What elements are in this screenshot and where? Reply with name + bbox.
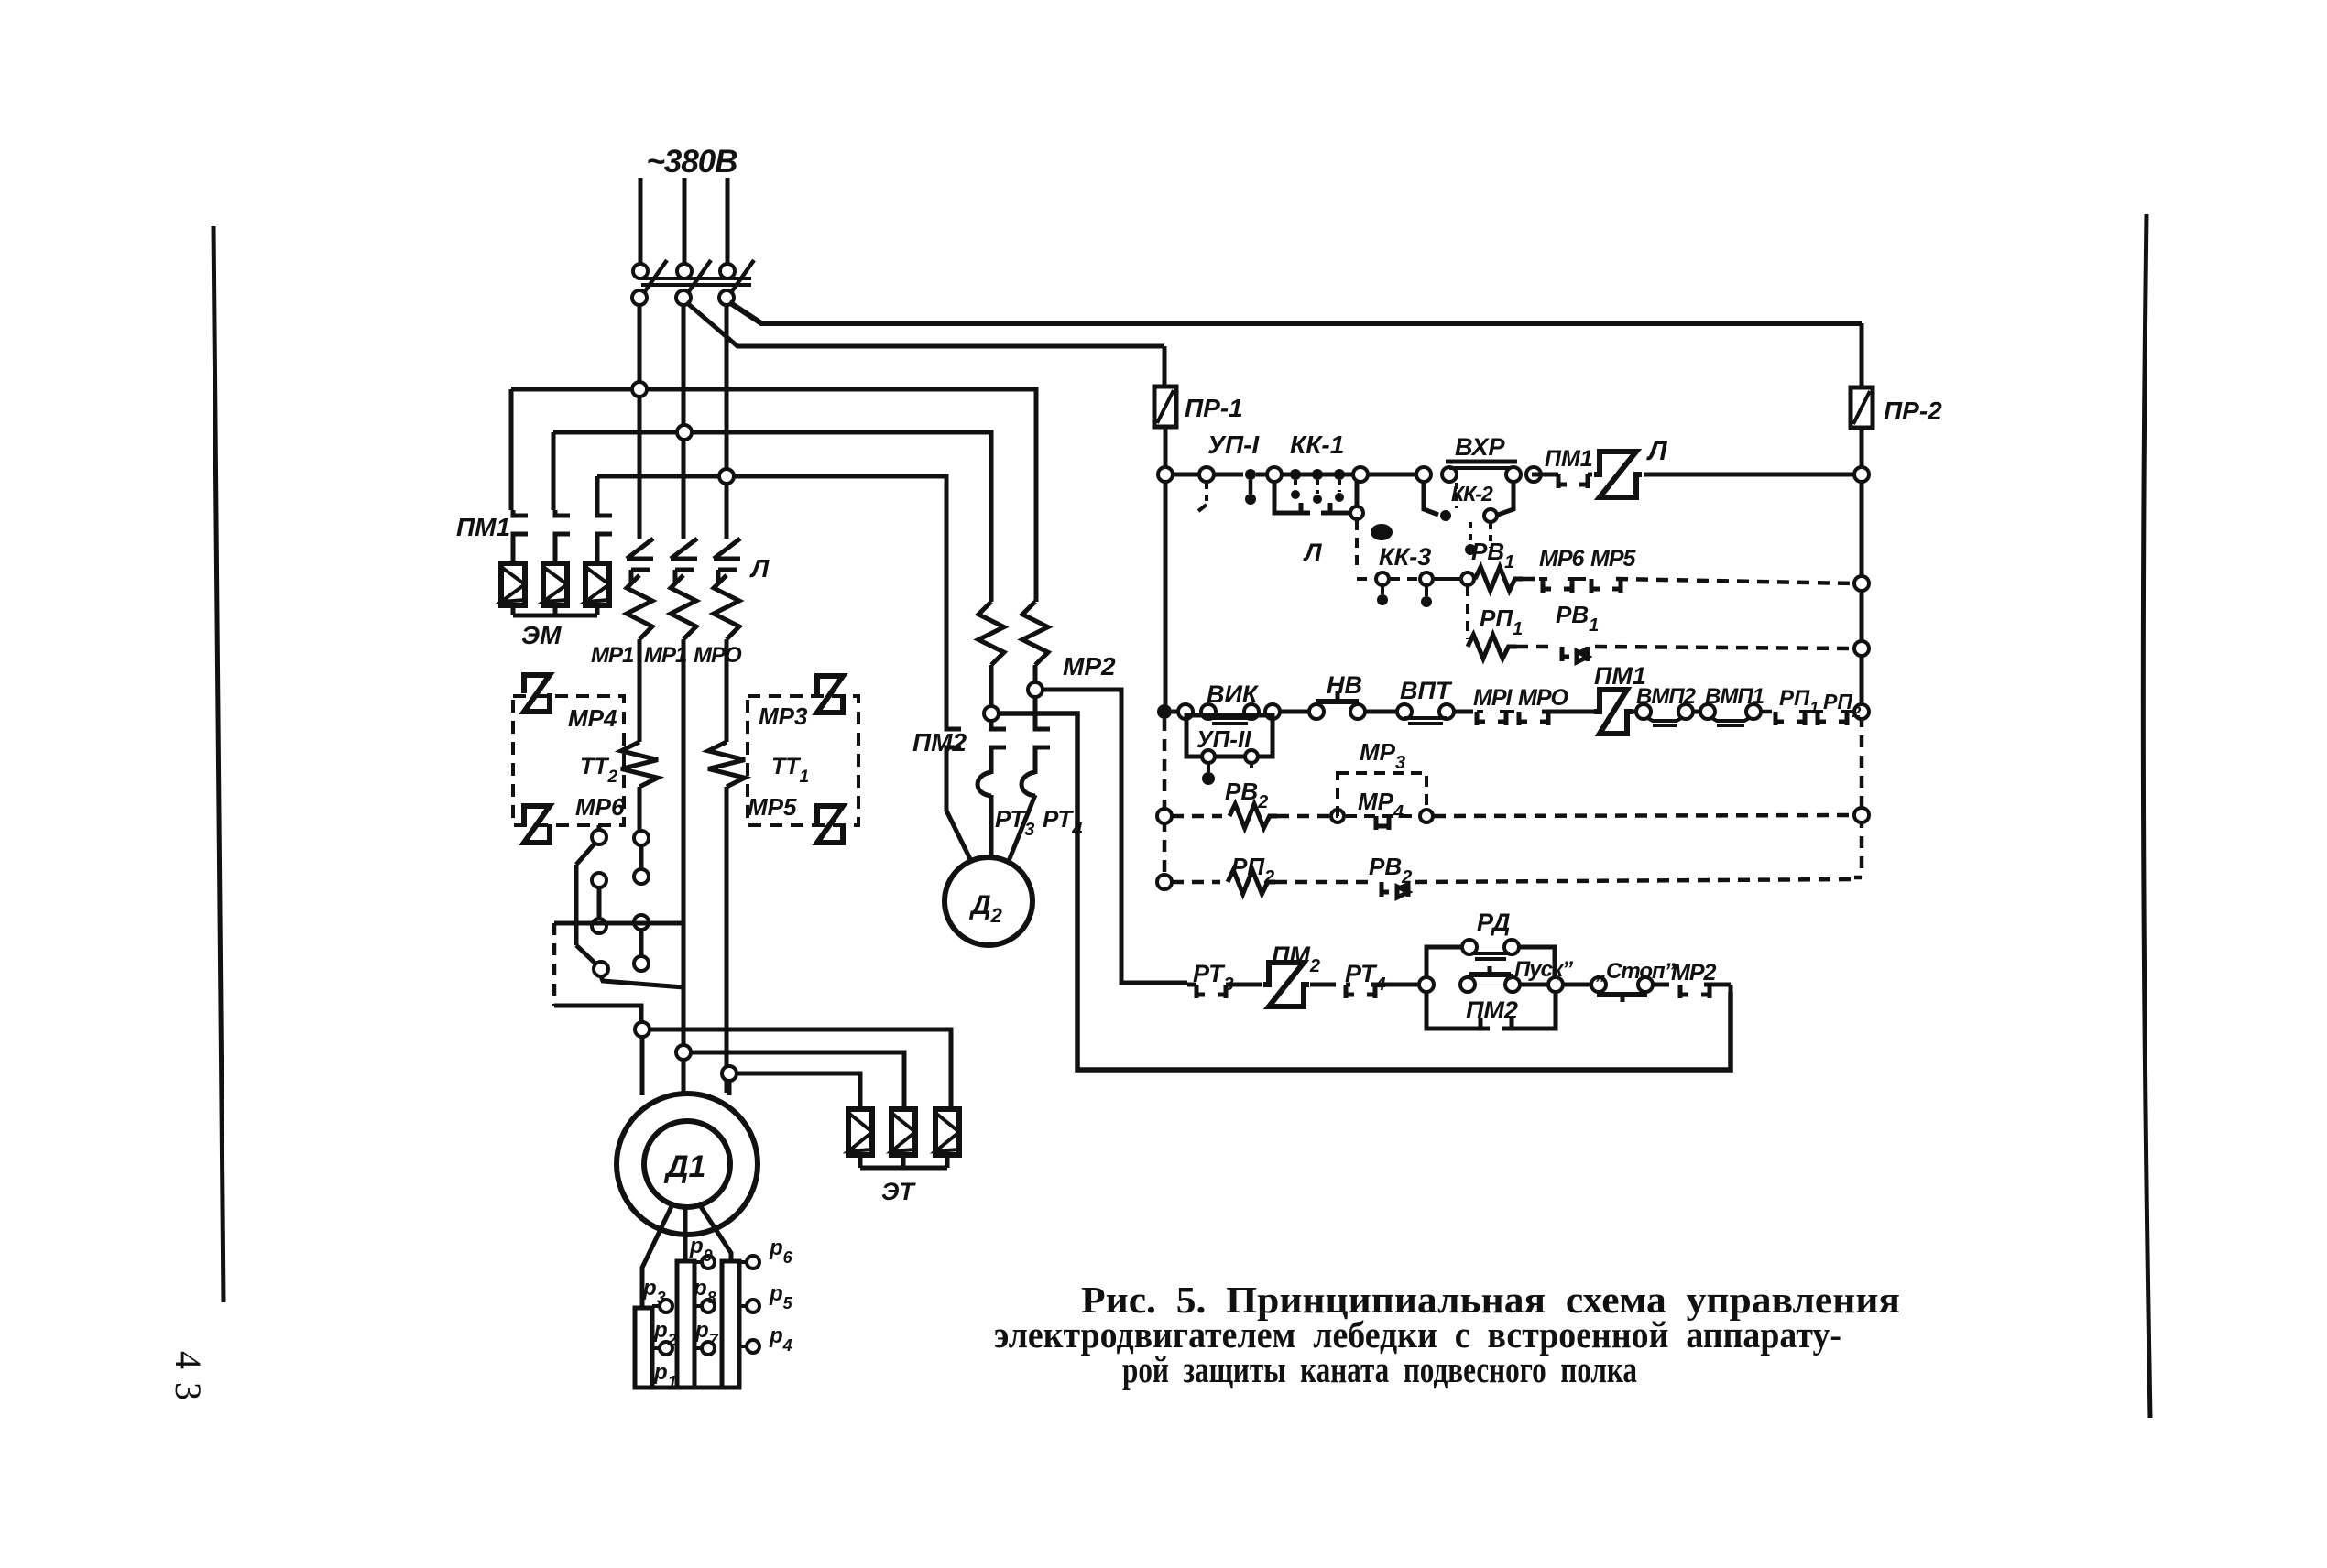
svg-text:Л: Л bbox=[1303, 539, 1323, 566]
svg-text:КК-1: КК-1 bbox=[1290, 430, 1344, 459]
svg-text:Л: Л bbox=[1646, 436, 1668, 466]
svg-text:МР5: МР5 bbox=[1590, 546, 1637, 572]
svg-text:Д1: Д1 bbox=[663, 1149, 705, 1184]
svg-text:РД: РД bbox=[1477, 909, 1510, 936]
svg-text:МР5: МР5 bbox=[748, 793, 797, 821]
svg-text:ПР-1: ПР-1 bbox=[1185, 394, 1243, 422]
svg-text:Л: Л bbox=[749, 554, 770, 583]
svg-text:УП-І: УП-І bbox=[1207, 430, 1260, 459]
svg-text:ПМ2: ПМ2 bbox=[912, 728, 967, 757]
svg-text:ПМ2: ПМ2 bbox=[1466, 996, 1518, 1024]
svg-text:ПМ1: ПМ1 bbox=[456, 513, 510, 541]
svg-text:МР2: МР2 bbox=[1671, 960, 1717, 985]
svg-text:МР6: МР6 bbox=[1539, 546, 1586, 572]
svg-text:МРО: МРО bbox=[694, 643, 742, 668]
svg-text:~380В: ~380В bbox=[646, 144, 737, 180]
svg-text:КК-3: КК-3 bbox=[1379, 543, 1431, 571]
svg-text:ВМП2: ВМП2 bbox=[1636, 684, 1697, 709]
svg-text:ЭМ: ЭМ bbox=[521, 621, 562, 649]
svg-text:43: 43 bbox=[168, 1351, 209, 1413]
svg-text:МР2: МР2 bbox=[1063, 652, 1116, 681]
svg-text:МР1: МР1 bbox=[591, 643, 634, 668]
svg-text:ПМ1: ПМ1 bbox=[1545, 446, 1593, 472]
svg-text:„Стоп”: „Стоп” bbox=[1595, 959, 1676, 984]
svg-text:НВ: НВ bbox=[1327, 671, 1362, 699]
svg-text:МР3: МР3 bbox=[759, 702, 808, 730]
svg-text:рой защиты каната подвесног: рой защиты каната подвесного полка bbox=[1122, 1348, 1637, 1390]
svg-text:МРО: МРО bbox=[1518, 685, 1569, 711]
svg-text:КК-2: КК-2 bbox=[1451, 482, 1493, 506]
svg-text:МР1: МР1 bbox=[644, 643, 687, 668]
svg-text:ПР-2: ПР-2 bbox=[1884, 397, 1942, 425]
svg-text:ВПТ: ВПТ bbox=[1400, 677, 1453, 704]
svg-text:ВИК: ВИК bbox=[1207, 681, 1260, 708]
svg-text:„Пуск”: „Пуск” bbox=[1503, 957, 1573, 982]
svg-text:ВМП1: ВМП1 bbox=[1705, 684, 1764, 709]
svg-text:МР6: МР6 bbox=[575, 793, 625, 821]
svg-text:ЭТ: ЭТ bbox=[881, 1178, 916, 1205]
svg-text:ВХР: ВХР bbox=[1455, 433, 1505, 461]
svg-text:МР4: МР4 bbox=[568, 704, 617, 732]
svg-text:УП-ІІ: УП-ІІ bbox=[1196, 725, 1251, 753]
svg-text:МРІ: МРІ bbox=[1473, 685, 1513, 711]
